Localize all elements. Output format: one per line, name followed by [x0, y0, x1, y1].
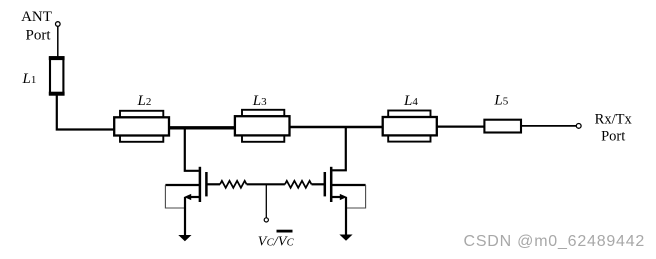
svg-text:L2: L2 — [137, 93, 152, 109]
transistor Q1 bulk tie — [165, 185, 200, 208]
Rx/Tx port terminal — [576, 124, 581, 129]
wire L2 to L3 (thick segment) — [169, 126, 235, 129]
wire Vc node stub — [265, 184, 267, 218]
ANT port terminal — [56, 22, 61, 27]
ANT Port label — [21, 9, 52, 44]
inductor L1 — [49, 56, 65, 95]
label Vc/Vc-bar — [258, 230, 295, 250]
Rx/Tx Port label — [595, 111, 633, 144]
wire L4 to L5 — [437, 125, 485, 127]
wire ANT port to L1 — [57, 26, 59, 57]
wire L1 to L2 — [57, 95, 114, 130]
wire L5 to Rx/Tx port — [521, 125, 576, 127]
wire R1 to R2 with Vc node — [247, 183, 285, 185]
inductor L4 — [383, 111, 437, 142]
transistor Q2 drain wire — [332, 127, 346, 170]
svg-text:CSDN @m0_62489442: CSDN @m0_62489442 — [464, 233, 646, 250]
label L3 — [252, 93, 267, 109]
svg-text:ANT: ANT — [21, 9, 52, 25]
label L1 — [22, 71, 37, 87]
inductor L2 — [114, 111, 169, 142]
watermark — [464, 233, 646, 250]
svg-text:Port: Port — [601, 129, 625, 145]
ground left — [178, 235, 191, 241]
ground right — [339, 235, 352, 241]
resistor R2 — [285, 181, 312, 188]
svg-text:Port: Port — [25, 28, 51, 44]
transistor Q1 channel — [199, 167, 202, 202]
wire L3 to L4 — [290, 126, 383, 129]
svg-text:L3: L3 — [252, 93, 267, 109]
transistor Q2 bulk tie — [331, 185, 365, 208]
transistor Q1 drain wire — [185, 128, 199, 171]
label L5 — [493, 93, 508, 109]
svg-text:L5: L5 — [493, 93, 508, 109]
transistor Q1 source with arrow — [184, 194, 200, 235]
resistor R1 — [220, 181, 247, 188]
svg-text:L1: L1 — [22, 71, 37, 87]
transistor Q2 source with arrow — [331, 194, 347, 235]
inductor L5 — [484, 120, 521, 133]
inductor L3 — [235, 110, 290, 142]
svg-text:L4: L4 — [403, 93, 418, 109]
label L2 — [137, 93, 152, 109]
label L4 — [403, 93, 418, 109]
transistor Q2 channel — [330, 167, 333, 202]
transistor Q2 gate — [312, 172, 325, 196]
svg-text:Rx/Tx: Rx/Tx — [595, 111, 633, 127]
Vc terminal — [264, 218, 268, 222]
svg-text:VC/VC: VC/VC — [258, 235, 295, 250]
transistor Q1 gate — [206, 172, 220, 196]
